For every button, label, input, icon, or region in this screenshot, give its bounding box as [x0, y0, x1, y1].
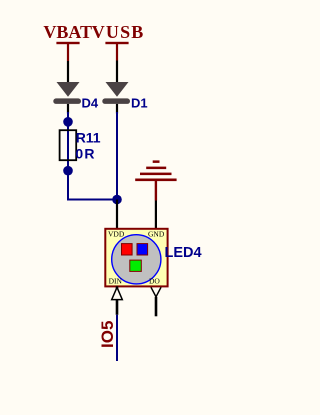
svg-text:VUSB: VUSB — [92, 22, 145, 42]
power port VBAT label — [43, 22, 92, 42]
LED4 designator label — [165, 245, 202, 261]
diode D1 body — [102, 82, 130, 104]
power port VBAT bar symbol — [56, 42, 79, 61]
diode D1 designator label — [131, 96, 148, 111]
diode D4 body — [53, 82, 81, 104]
LED4 blue die square — [137, 244, 148, 255]
junction dot below R11 — [63, 166, 73, 176]
diode D1 pin 1 (bottom) — [116, 104, 118, 114]
power port VUSB label — [92, 22, 145, 42]
svg-text:R11: R11 — [76, 129, 101, 145]
diode D1 pin 2 (top) — [116, 61, 118, 83]
svg-text:D1: D1 — [131, 96, 148, 111]
diode D4 pin 2 (top) — [67, 61, 69, 83]
LED4 VDD pin wire (pin 1) — [116, 200, 118, 230]
pin name GND — [148, 229, 165, 238]
svg-text:VDD: VDD — [108, 229, 125, 238]
svg-text:GND: GND — [148, 229, 165, 238]
pin name VDD — [108, 229, 125, 238]
svg-text:D4: D4 — [82, 96, 99, 111]
LED4 DIN pin wire (pin 4) with input triangle — [112, 286, 123, 314]
pin name DO — [149, 277, 160, 286]
pin name DIN — [109, 277, 123, 286]
diode D4 designator label — [82, 96, 99, 111]
LED4 green die square — [130, 260, 142, 271]
resistor R11 body — [60, 130, 77, 160]
wire from D4 through R11 down to horizontal net — [68, 112, 117, 200]
LED4 GND pin wire (pin 3) — [155, 201, 157, 230]
diode D4 pin 1 (bottom) — [67, 104, 69, 114]
resistor R11 value label 0R — [75, 145, 95, 161]
svg-text:IO5: IO5 — [98, 321, 117, 348]
power port VUSB bar symbol — [105, 42, 128, 61]
svg-text:LED4: LED4 — [165, 245, 202, 261]
LED4 DO pin wire (pin 2) with output vee — [151, 287, 161, 316]
ground symbol — [135, 160, 176, 200]
svg-text:VBAT: VBAT — [43, 22, 92, 42]
LED4 red die square — [122, 244, 133, 255]
junction dot above R11 — [63, 117, 73, 127]
wire from D1 down to VDD pin junction — [116, 112, 118, 200]
svg-text:DIN: DIN — [109, 277, 123, 286]
svg-text:DO: DO — [149, 277, 160, 286]
LED4 component body — [105, 229, 167, 287]
wire net IO5 — [116, 315, 118, 361]
junction dot at VDD net tee — [112, 195, 122, 205]
net label IO5 — [98, 321, 117, 348]
resistor R11 designator label — [76, 129, 101, 145]
svg-text:0R: 0R — [75, 145, 95, 161]
